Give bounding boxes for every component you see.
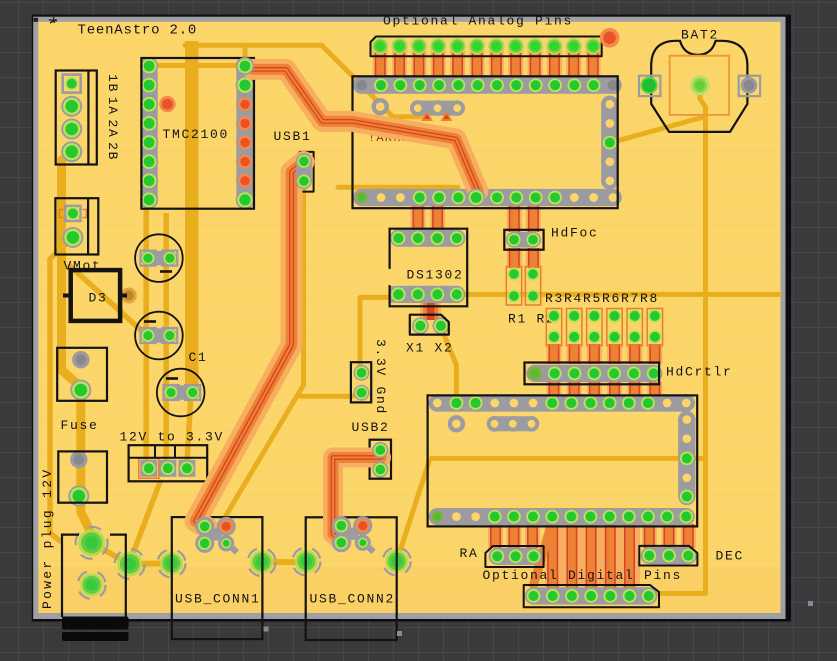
svg-text:DS1302: DS1302 (407, 268, 464, 283)
svg-text:C1: C1 (189, 350, 208, 365)
svg-text:D3: D3 (89, 291, 108, 306)
svg-text:DEC: DEC (716, 549, 745, 564)
svg-text:2B: 2B (105, 142, 120, 161)
svg-text:Optional Analog Pins: Optional Analog Pins (383, 14, 573, 29)
svg-text:USB2: USB2 (352, 420, 390, 435)
svg-text:TeenAstro 2.0: TeenAstro 2.0 (78, 23, 198, 39)
svg-text:USB_CONN1: USB_CONN1 (175, 592, 261, 607)
svg-text:Fuse: Fuse (61, 418, 99, 433)
svg-text:USB1: USB1 (274, 129, 312, 144)
svg-text:BAT2: BAT2 (681, 28, 719, 43)
svg-text:USB_CONN2: USB_CONN2 (310, 592, 396, 607)
svg-text:HdFoc: HdFoc (551, 226, 599, 241)
svg-text:12V to 3.3V: 12V to 3.3V (120, 430, 225, 445)
svg-text:3.3V Gnd: 3.3V Gnd (373, 339, 388, 415)
svg-text:X1 X2: X1 X2 (406, 341, 454, 356)
svg-text:1B: 1B (105, 74, 120, 93)
svg-text:RA: RA (460, 546, 479, 561)
svg-text:HdCrtlr: HdCrtlr (666, 365, 733, 380)
svg-text:Optional Digital Pins: Optional Digital Pins (483, 568, 683, 583)
svg-text:TMC2100: TMC2100 (163, 127, 230, 142)
svg-text:1A: 1A (105, 97, 120, 116)
svg-text:R3R4R5R6R7R8: R3R4R5R6R7R8 (545, 291, 659, 306)
svg-text:Power plug 12V: Power plug 12V (40, 468, 55, 609)
svg-text:2A: 2A (105, 119, 120, 138)
